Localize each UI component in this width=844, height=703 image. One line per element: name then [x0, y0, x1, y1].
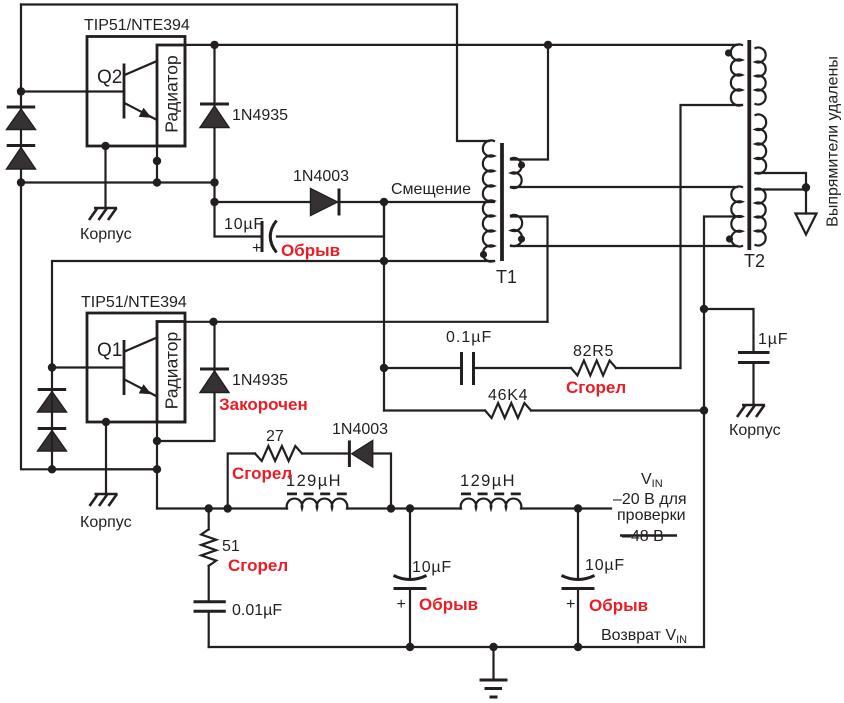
svg-text:129µH: 129µH — [286, 472, 342, 490]
svg-text:+: + — [397, 596, 406, 613]
wire T1 sec1 top — [511, 45, 548, 160]
wire 1uF ground — [752, 363, 754, 406]
transistor Q2 emitter arrow — [139, 108, 152, 118]
transformer T1 primary — [483, 140, 494, 261]
transformer T2 secondary C — [756, 189, 766, 246]
wire snubber mid — [474, 367, 572, 369]
wire bottom return rail — [209, 646, 704, 648]
svg-text:10µF: 10µF — [585, 557, 625, 574]
node Q1 base — [48, 363, 56, 371]
node Q1 emitter rail left — [48, 465, 56, 473]
wire Q1 clamp — [51, 368, 53, 470]
svg-text:Корпус: Корпус — [80, 514, 132, 531]
svg-text:10µF: 10µF — [224, 216, 264, 233]
svg-text:TIP51/NTE394: TIP51/NTE394 — [84, 17, 190, 34]
wire 46K4 left — [384, 409, 485, 411]
core dash L2 — [461, 492, 521, 495]
diode 1N4003 (bias) — [311, 189, 340, 216]
svg-text:1N4003: 1N4003 — [293, 168, 349, 185]
svg-text:Радиатор: Радиатор — [162, 332, 182, 409]
node T2 pri2 phase dot — [726, 235, 733, 242]
node bias anode — [210, 198, 218, 206]
svg-text:82R5: 82R5 — [573, 343, 614, 360]
wire left rail — [21, 5, 157, 470]
node Q1 emitter branch — [153, 437, 161, 445]
node 1N4935 top — [210, 41, 218, 49]
diode 1N4003 (damper) — [349, 440, 372, 467]
node 1uF tap — [700, 305, 708, 313]
node Q1 ground — [102, 418, 110, 426]
wire bottom rail a — [157, 507, 287, 509]
node Q2 ground — [101, 142, 109, 150]
wire bias tap — [384, 201, 494, 203]
wire bias cap right — [277, 202, 384, 237]
transformer T1 core — [500, 143, 504, 261]
node T1 sec2 phase dot — [518, 235, 525, 242]
capacitor 10uF C2 — [562, 576, 595, 589]
node 1N4935 bottom — [210, 178, 218, 186]
transformer T1 secondary 2 — [511, 215, 522, 246]
diode clamp D1 (Q2) — [7, 107, 36, 130]
node Q2 base rail — [17, 87, 25, 95]
transistor Q2 base bar — [123, 64, 126, 119]
resistor 51 — [208, 509, 210, 530]
wire snubber left — [384, 367, 462, 369]
wire Q2 emitter rail — [21, 181, 215, 183]
node Q1 collector — [209, 318, 217, 326]
diode clamp D2 (Q2) — [7, 146, 36, 170]
wire T2 secB out — [756, 173, 807, 188]
ground chassis Q1 — [90, 494, 118, 506]
svg-text:Q2: Q2 — [97, 67, 122, 88]
svg-text:–20 В для: –20 В для — [613, 491, 687, 508]
resistor 46K4 — [485, 403, 531, 418]
svg-text:TIP51/NTE394: TIP51/NTE394 — [81, 294, 187, 311]
capacitor 0.01uF — [194, 602, 226, 612]
svg-text:Выпрямители удалены: Выпрямители удалены — [825, 56, 842, 227]
svg-text:129µH: 129µH — [460, 472, 516, 490]
svg-text:10µF: 10µF — [412, 559, 452, 576]
label -48V strike — [620, 528, 677, 545]
diode 1N4935 (Q1) — [200, 369, 229, 393]
wire 27 branch — [228, 454, 255, 509]
core dash L1 — [287, 492, 347, 495]
wire snubber right — [616, 367, 681, 369]
node T2 pri1 phase dot — [725, 49, 732, 56]
wire 1N4935 Q1 — [157, 322, 215, 441]
svg-text:+: + — [566, 596, 575, 613]
node 10uF-2 bottom — [574, 643, 582, 651]
node T2 center tap — [802, 183, 810, 191]
wire damper right — [373, 454, 391, 509]
wire Q2 base — [21, 90, 124, 92]
node 10uF-1 top — [406, 504, 414, 512]
inductor 129uH L2 — [461, 499, 522, 509]
node 27 branch left — [224, 504, 232, 512]
wire feedback vert — [383, 202, 385, 411]
svg-text:1N4935: 1N4935 — [232, 107, 288, 124]
svg-text:Возврат VIN: Возврат VIN — [601, 627, 687, 646]
heatsink box Q2 — [157, 45, 185, 146]
wire bias cap left — [215, 202, 261, 237]
node top rail junction — [544, 41, 552, 49]
svg-text:Закорочен: Закорочен — [219, 395, 308, 414]
node Q2 emitter rail left — [17, 178, 25, 186]
node bias cathode — [380, 198, 388, 206]
node 10uF-1 bottom — [406, 643, 414, 651]
wire bias row — [215, 201, 385, 203]
wire T1 sec1 bottom to T2 — [511, 186, 737, 188]
heatsink box Q1 — [157, 322, 185, 423]
node snubber — [380, 364, 388, 372]
node T1 primary phase dot — [480, 251, 487, 258]
transformer T2 primary 1 — [731, 44, 742, 105]
wire T2 pri2 tap — [704, 217, 742, 648]
node 27 branch right — [387, 504, 395, 512]
node 10uF-2 top — [574, 504, 582, 512]
wire top rail — [21, 5, 489, 142]
node Q1 emitter rail — [153, 465, 161, 473]
svg-text:1µF: 1µF — [758, 331, 788, 348]
node ground bottom — [489, 643, 497, 651]
wire 1N4935 Q2 — [213, 45, 215, 202]
svg-text:Корпус: Корпус — [729, 422, 781, 439]
svg-text:проверки: проверки — [617, 507, 686, 524]
transformer T2 secondary B — [756, 114, 767, 173]
transistor Q2 emitter — [125, 103, 158, 120]
wire Q1 emitter rail — [52, 468, 157, 470]
svg-text:Радиатор: Радиатор — [162, 55, 182, 132]
wire 10uF-2 down — [577, 589, 579, 648]
diode clamp D3 (Q1) — [38, 390, 67, 413]
transistor Q1 emitter arrow — [139, 384, 152, 394]
ground chassis 1uF — [737, 405, 765, 417]
svg-text:Обрыв: Обрыв — [589, 596, 648, 615]
node 46K4 right — [700, 406, 708, 414]
transistor Q1 collector — [125, 338, 158, 352]
wire 10uF-2 — [577, 509, 579, 578]
transistor Q2 module box — [87, 37, 185, 147]
resistor 27 — [255, 446, 302, 461]
wire T2 pri1 bottom — [681, 105, 743, 368]
wire Q1 ground — [105, 422, 107, 494]
wire 46K4 right — [531, 409, 704, 411]
svg-text:0.1µF: 0.1µF — [446, 329, 492, 346]
svg-text:Смещение: Смещение — [391, 181, 471, 198]
svg-text:46K4: 46K4 — [488, 387, 528, 404]
wire T1 sec2 top — [511, 217, 548, 322]
node Q2 emitter pin — [153, 157, 161, 165]
capacitor 10uF C1 — [394, 576, 427, 589]
transformer T1 secondary 1 — [511, 158, 522, 188]
transformer T2 core — [747, 40, 751, 250]
svg-text:Корпус: Корпус — [80, 226, 132, 243]
svg-text:1N4003: 1N4003 — [332, 421, 388, 438]
transistor Q1 module box — [87, 313, 185, 422]
ground chassis Q2 — [89, 208, 117, 220]
transistor Q1 base bar — [123, 340, 126, 395]
svg-text:1N4935: 1N4935 — [232, 372, 288, 389]
wire Q2 ground — [104, 146, 106, 208]
wire 0.01uF down — [208, 611, 210, 647]
wire 10uF-1 down — [409, 589, 411, 648]
svg-text:0.01µF: 0.01µF — [232, 602, 282, 619]
inductor 129uH L1 — [287, 499, 348, 509]
capacitor 10uF (bias) — [262, 221, 277, 253]
svg-text:Сгорел: Сгорел — [566, 378, 626, 397]
transformer T2 primary 2 — [731, 186, 742, 246]
wire ground stub — [492, 647, 494, 680]
svg-text:51: 51 — [222, 538, 240, 555]
svg-text:T2: T2 — [744, 251, 765, 271]
wire bottom rail b — [347, 507, 461, 509]
wire 10uF-1 — [409, 509, 411, 578]
diode 1N4935 (Q2) — [200, 104, 229, 128]
svg-text:+: + — [252, 240, 261, 257]
wire T1 primary bottom — [52, 261, 494, 368]
capacitor 0.1uF — [462, 352, 474, 385]
svg-text:Обрыв: Обрыв — [281, 241, 340, 260]
wire T2 secC out — [756, 190, 807, 214]
wire Q2 emitter pin — [156, 146, 158, 183]
node 51 top — [205, 504, 213, 512]
wire bottom rail c — [521, 507, 611, 509]
transistor Q2 collector — [125, 61, 158, 75]
svg-text:Сгорел: Сгорел — [232, 464, 292, 483]
transformer T2 secondary A — [756, 48, 766, 105]
ground earth — [480, 680, 508, 697]
svg-text:T1: T1 — [496, 267, 517, 287]
node T1 sec1 phase dot — [518, 161, 525, 168]
wire Q1 emitter pin — [156, 422, 158, 509]
wire Q1 collector row — [185, 321, 548, 323]
wire 1uF — [704, 309, 754, 352]
transistor Q1 emitter — [125, 380, 158, 397]
svg-text:Обрыв: Обрыв — [419, 595, 478, 614]
diode clamp D4 (Q1) — [38, 429, 67, 452]
node Q2 emitter rail — [153, 178, 161, 186]
arrow rectifiers removed — [796, 214, 817, 235]
wire T1 sec2 bottom to T2 — [511, 245, 737, 247]
svg-text:27: 27 — [266, 428, 284, 445]
wire Q2 collector rail — [185, 44, 737, 46]
capacitor 1uF — [738, 353, 770, 363]
svg-text:Q1: Q1 — [97, 340, 122, 361]
wire Q1 base — [52, 366, 124, 368]
resistor 82R5 — [571, 361, 616, 376]
node T1 bottom branch — [380, 257, 388, 265]
svg-text:Сгорел: Сгорел — [228, 556, 288, 575]
wire 27 to diode — [302, 452, 349, 454]
